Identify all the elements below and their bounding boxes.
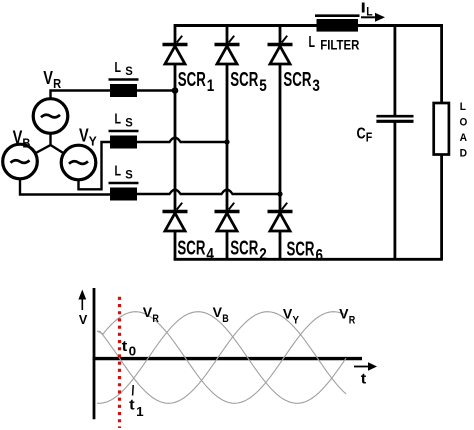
svg-text:S: S [125,170,133,182]
firing instant marker (red dotted line) [118,297,121,428]
svg-text:L: L [115,111,122,128]
svg-text:R: R [152,313,159,325]
inductor LS2 [109,131,139,149]
AC source VY [61,145,96,180]
svg-text:B: B [222,313,229,325]
svg-text:SCR: SCR [230,69,258,91]
thyristor SCR5 [215,36,240,64]
AC source VB [3,144,38,179]
svg-text:R: R [349,314,356,326]
wire right branch to load [440,26,443,104]
label t1 [132,385,135,396]
sine wave VY [97,312,346,404]
bottom bus wire [174,258,443,261]
svg-text:4: 4 [206,245,214,264]
wire VR to LS1 [51,91,111,100]
inductor LS3 [109,183,139,201]
wire VY to LS2 [79,142,111,189]
svg-text:L: L [460,101,466,113]
svg-text:Y: Y [293,314,300,326]
thyristor SCR6 [268,203,293,231]
svg-text:V: V [143,304,153,320]
svg-text:L: L [115,59,122,76]
svg-text:t: t [361,371,367,388]
svg-text:SCR: SCR [177,238,205,260]
svg-text:V: V [339,306,349,322]
V axis arrow [78,290,86,311]
svg-text:F: F [366,130,373,145]
svg-text:S: S [125,66,133,78]
wire column 1 (SCR1/SCR4 leg) [174,26,177,260]
inductor LS1 [109,80,139,98]
svg-text:V: V [79,126,89,146]
svg-text:5: 5 [259,76,267,95]
sine wave VR [97,312,346,404]
svg-text:1: 1 [207,76,215,95]
svg-text:L: L [115,163,122,180]
thyristor SCR1 [163,36,188,64]
phase wire R: LS1 to column1 [137,89,175,91]
svg-text:Y: Y [89,134,97,149]
AC source VR [33,99,68,134]
wire star point [20,133,79,163]
svg-text:FILTER: FILTER [320,36,359,52]
svg-text:6: 6 [316,246,324,265]
thyristor SCR2 [215,203,240,231]
junction node Y [224,139,229,144]
V axis [93,288,96,419]
t axis arrow [354,362,377,370]
svg-text:3: 3 [312,76,320,95]
top bus wire [174,24,443,27]
svg-text:1: 1 [136,404,144,419]
svg-text:R: R [53,76,62,91]
t axis [93,357,362,360]
load resistor box [434,103,449,155]
svg-text:I: I [361,0,366,17]
svg-text:C: C [357,125,367,142]
phase wire Y: LS2 to column2 with hop over column1 [137,138,227,142]
wire column 3 (SCR3/SCR6 leg) [279,26,282,260]
sine wave VB [97,312,346,404]
junction node R [172,87,179,94]
svg-text:B: B [22,136,30,151]
svg-text:SCR: SCR [287,239,315,261]
svg-text:L: L [309,34,316,51]
svg-text:V: V [43,68,53,88]
wire column 2 (SCR5/SCR2 leg) [226,26,229,260]
inductor L_FILTER [315,16,360,32]
svg-text:L: L [366,5,372,19]
capacitor CF [376,116,413,121]
svg-text:D: D [460,148,467,160]
wire VB to LS3 [20,178,110,195]
junction node B [277,191,282,196]
svg-text:SCR: SCR [283,69,311,91]
svg-text:0: 0 [129,344,137,359]
svg-text:V: V [283,306,293,322]
current arrow IL [361,13,385,22]
svg-text:2: 2 [259,245,267,264]
thyristor SCR4 [163,203,188,231]
svg-text:t: t [122,338,128,355]
svg-text:t: t [129,397,135,414]
wire CF branch [393,26,396,117]
svg-text:A: A [460,132,467,144]
thyristor SCR3 [268,36,293,64]
svg-text:SCR: SCR [178,69,206,91]
svg-text:S: S [125,118,133,130]
svg-text:O: O [460,116,468,128]
svg-text:V: V [13,128,23,148]
svg-text:V: V [213,304,223,320]
svg-text:V: V [79,312,88,327]
svg-text:SCR: SCR [230,238,258,260]
phase wire B: LS3 to column3 with hops over columns 1,2 [137,190,280,194]
